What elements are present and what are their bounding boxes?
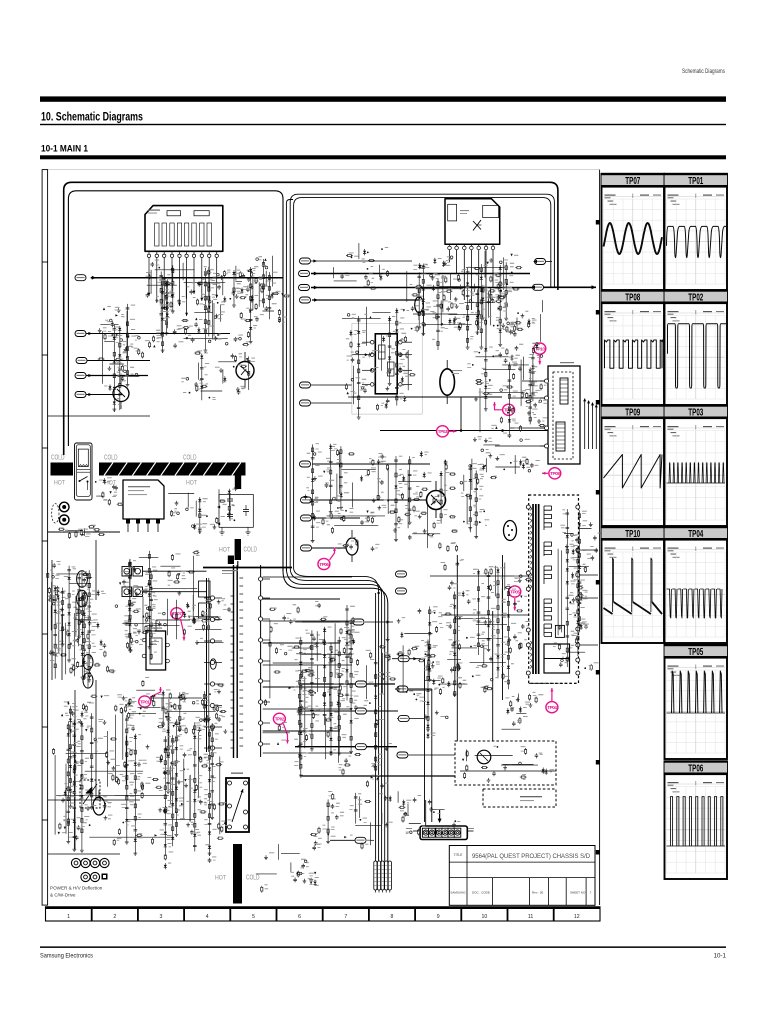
svg-text:COLD: COLD: [183, 455, 197, 462]
svg-text:Rev : 00: Rev : 00: [532, 891, 544, 895]
left connector P102: [75, 331, 86, 337]
svg-text:3: 3: [160, 914, 163, 920]
svg-text:10-1 MAIN 1: 10-1 MAIN 1: [41, 144, 89, 155]
IC U401 pin 2: [456, 244, 458, 246]
IC U301 pin 8: [201, 251, 203, 254]
transistor Q401 (H-out): [427, 491, 446, 510]
wire y464 horizontal: [312, 463, 430, 465]
wire mid 300 heavy: [312, 299, 420, 301]
photo-coupler square A2: [133, 567, 143, 577]
IC IC801S body: [146, 631, 166, 670]
degauss coil dashed ellipse: [52, 504, 59, 523]
scale strip divider: [507, 907, 509, 921]
right margin tick: [596, 490, 600, 495]
scale strip divider: [137, 907, 139, 921]
wire T601 pin1 left: [522, 380, 545, 382]
svg-text:COLD: COLD: [104, 455, 118, 462]
Y-cap arrows: [217, 506, 220, 509]
component cluster: socket area: [403, 798, 456, 836]
degauss connector ring 1: [59, 502, 69, 512]
FBT primary pin 6: [526, 671, 530, 675]
test point TP07 callout: [171, 608, 186, 641]
wire y711 horizontal: [300, 710, 398, 712]
scale strip divider: [414, 907, 416, 921]
relay RL801 body: [75, 443, 93, 500]
svg-text:TITLE: TITLE: [454, 853, 463, 857]
Y-cap bridge network box: [219, 495, 253, 528]
photo-coupler square B2: [133, 587, 143, 597]
CRT socket side lead left: [413, 830, 419, 832]
left connector P103: [76, 358, 87, 364]
wire bottom y854: [48, 853, 120, 855]
wire bus line D: [286, 200, 293, 572]
IC U301 inner label box 2: [194, 211, 209, 216]
right connector J402: [533, 284, 544, 290]
component cluster: top right corner cluster: [507, 300, 543, 354]
wire mid 273.5 heavy: [311, 273, 530, 275]
svg-text:TP10: TP10: [625, 529, 640, 540]
isolation small bar: [235, 539, 241, 560]
line filter LF801 winding 2: [77, 590, 88, 606]
svg-text:HOT: HOT: [215, 875, 226, 882]
chassis pin ring 5: [81, 872, 90, 881]
T801 aux box 2: [199, 603, 211, 618]
svg-text:TP08: TP08: [550, 471, 560, 476]
svg-text:6: 6: [298, 914, 301, 920]
transformer T601 winding 2: [556, 422, 565, 451]
transformer T802 pin: [244, 781, 248, 785]
wire left x96b vertical: [95, 680, 97, 800]
FBT secondary pin 3: [576, 573, 580, 577]
test point TP10 callout: [534, 343, 546, 365]
oscilloscope box TP10: [601, 526, 665, 643]
FBT secondary pin 8: [576, 671, 580, 675]
left connector P101: [75, 275, 86, 281]
isolation bar vertical leg: [235, 476, 241, 490]
scale strip divider: [553, 907, 555, 921]
test point TP05 callout: [509, 586, 521, 611]
component cluster: right mid column: [474, 343, 545, 438]
title block bottom row divider: [529, 878, 531, 906]
wire mid 261: [311, 260, 412, 262]
title cell divider: [466, 846, 468, 906]
FBT winding comb 1: [543, 506, 545, 530]
IC U301 pin 2: [156, 251, 158, 254]
component cluster: under DPS: [122, 680, 227, 732]
FBT secondary pin 1: [576, 505, 580, 509]
transformer T802 pin: [228, 804, 232, 808]
svg-text:TP06: TP06: [319, 562, 329, 567]
transformer T801 primary pin 8: [210, 746, 214, 750]
bridge rectifier D801 dashed box: [80, 780, 100, 808]
IC U401 body (chamfered): [445, 199, 500, 244]
right margin tick: [596, 850, 600, 855]
IC U401 pin 6: [485, 244, 487, 246]
transformer T801 winding ticks left: [231, 595, 235, 597]
scale strip divider: [460, 907, 462, 921]
chassis pin ring 4: [100, 858, 109, 867]
svg-text:9564(PAL QUEST PROJECT) CHASSI: 9564(PAL QUEST PROJECT) CHASSIS S/D: [472, 853, 591, 860]
IC IC601 right pin 2: [399, 353, 403, 357]
degauss connector ring 2: [59, 515, 69, 525]
wire bus B+ left: [91, 277, 283, 279]
wire bundle corner C: [290, 568, 381, 861]
svg-text:2: 2: [113, 914, 116, 920]
Y-cap C802: [229, 510, 231, 515]
wire y746 heavy: [295, 746, 397, 748]
oscilloscope box TP01: [664, 173, 734, 290]
wire left x75 vertical: [74, 690, 76, 850]
transformer T802 arrow: [232, 789, 243, 822]
component cluster: left column low: [48, 574, 89, 681]
IC U301 pin 1: [148, 251, 150, 254]
left margin tick: [42, 819, 48, 821]
Y-cap C803: [245, 505, 247, 510]
wire deflection out 4: [595, 406, 597, 449]
svg-text:COLD: COLD: [246, 875, 260, 882]
svg-text:9: 9: [437, 914, 440, 920]
IC U301 label: [148, 210, 160, 211]
wire bundle extra: [375, 593, 377, 861]
transformer T802 label DRV: [231, 773, 243, 774]
svg-text:TP04: TP04: [688, 529, 703, 540]
left margin tick: [42, 540, 48, 542]
transformer T801 secondary fan wires: [263, 576, 352, 578]
CRT socket pin 5: [448, 828, 455, 837]
Y-cap C801: [229, 495, 231, 500]
IC IC801S right pin: [166, 659, 170, 663]
IC U401 pin 1: [449, 244, 451, 246]
transformer T801 core: [233, 565, 235, 758]
wire left x62 vertical: [61, 615, 63, 680]
loop-edge connector J205: [300, 382, 311, 388]
svg-text:TP08: TP08: [625, 293, 640, 304]
test point TP08 callout: [542, 468, 561, 479]
FBT primary pin 5: [526, 643, 530, 647]
svg-text:HOT: HOT: [54, 479, 65, 486]
IC IC801S left pin: [142, 654, 146, 658]
transformer T801 left rail: [206, 578, 208, 752]
right connector J401: [535, 259, 546, 265]
scale strip divider: [183, 907, 185, 921]
wire IC601 feed: [348, 396, 352, 398]
transformer T601 winding 1: [560, 378, 568, 404]
photo-coupler square B1: [122, 587, 132, 597]
wire mid 287.5 heavy: [311, 287, 543, 289]
mid connector K11: [396, 588, 407, 594]
IC U301 pin 5: [179, 251, 181, 254]
svg-text:TP02: TP02: [275, 717, 285, 722]
left margin tick: [42, 447, 48, 449]
component cluster: under IC U401: [404, 251, 522, 350]
svg-text:TP02: TP02: [688, 293, 703, 304]
wire y838 horizontal: [330, 839, 355, 841]
transformer T801 secondary pin 5: [259, 659, 263, 663]
IC U301 pin 3: [163, 251, 165, 254]
relay RL801 coil squiggle: [79, 465, 88, 467]
CRT socket pin 2: [429, 828, 436, 837]
svg-text:/: /: [590, 891, 591, 895]
CRT socket side lead right: [468, 830, 474, 832]
svg-text:TP01: TP01: [688, 176, 703, 187]
T801 aux box 1: [199, 581, 211, 597]
transformer T801 primary pin 3: [210, 639, 214, 643]
relay RL801 inner outline: [76, 445, 90, 497]
component cluster: H-out area: [398, 459, 486, 552]
left margin tick: [42, 633, 48, 635]
IC IC601 right pin 3: [399, 369, 403, 373]
transistor Q302: [113, 386, 129, 402]
transformer T801 primary pin 7: [210, 725, 214, 729]
IC U301 pin 9: [208, 251, 210, 254]
IC U401 pin 7: [492, 244, 494, 246]
wire heavy bus above T801: [203, 567, 292, 569]
IC U301 inner cell 4: [170, 223, 174, 246]
chassis pin square: [102, 874, 108, 880]
wire bus line C: [294, 198, 551, 568]
wire bus line B: [290, 194, 554, 568]
isolation bar left (COLD/HOT): [51, 463, 74, 476]
right margin tick: [596, 400, 600, 405]
IC IC801S left pin: [142, 638, 146, 642]
transformer T801 core cap: [228, 556, 234, 565]
thin rule under heading: [40, 124, 726, 125]
svg-text:TP03: TP03: [688, 408, 703, 419]
transformer T802 pin: [244, 810, 248, 814]
wire photo-coupler to T801 A: [143, 570, 207, 572]
bottom scale strip frame: [46, 907, 601, 909]
wire bundle corner A: [283, 571, 388, 861]
photo-coupler square A1: [122, 567, 132, 577]
dashed box P E/W label: [483, 789, 556, 807]
sheet right border line: [599, 170, 601, 905]
FBT secondary pin 5: [576, 627, 580, 631]
right margin tick: [596, 670, 600, 675]
component cluster: loop2 bottom mid: [304, 444, 429, 552]
wire y755 horizontal: [408, 754, 455, 756]
mid connector K3: [355, 708, 366, 714]
transformer T601 pin 2: [545, 396, 549, 400]
svg-text:HOT: HOT: [105, 479, 116, 486]
svg-text:HOT: HOT: [186, 479, 197, 486]
IC U301 inner cell 2: [155, 223, 159, 246]
component cluster: IC U301 low tail: [186, 352, 250, 400]
component cluster: left mid strings: [115, 551, 208, 660]
component cluster: under bar B: [168, 486, 237, 534]
svg-text:Samsung Electronics: Samsung Electronics: [40, 953, 93, 960]
title block bottom row divider: [547, 878, 549, 906]
left margin tick: [42, 261, 48, 263]
component cluster: around IC IC601: [342, 307, 416, 420]
loop-edge connector J203: [299, 285, 310, 291]
oscilloscope box TP03: [664, 404, 728, 526]
IC IC601 left pin 4: [370, 383, 374, 387]
wire IC601 pin2 left: [352, 354, 362, 356]
line filter LF802 winding 2: [83, 673, 93, 688]
IC U301 pin 10: [216, 251, 218, 254]
transformer T801 secondary pin 2: [259, 596, 263, 600]
test point TP02 callout: [273, 713, 289, 743]
FBT primary pin 4: [526, 628, 530, 632]
component cluster: above posistor: [436, 283, 505, 335]
svg-text:Schematic Diagrams: Schematic Diagrams: [682, 68, 725, 75]
mid connector K5: [355, 837, 366, 843]
transformer T801 secondary pin 6: [259, 679, 263, 683]
component cluster: right of bundle: [397, 606, 448, 739]
svg-text:TP05: TP05: [688, 647, 703, 658]
oscilloscope box TP04: [664, 526, 728, 643]
isolation bar bottom vertical: [233, 844, 242, 904]
heavy rule under subheading: [40, 155, 726, 159]
loop-edge connector J204: [300, 297, 311, 303]
wire left x52 vertical: [51, 560, 53, 680]
oscilloscope box TP06: [664, 760, 728, 879]
IC IC601 led symbol 2: [388, 362, 395, 376]
IC U301 pin 4: [171, 251, 173, 254]
IC U301 pin 7: [193, 251, 195, 254]
svg-text:10-1: 10-1: [714, 953, 727, 960]
wire bottom y800: [48, 799, 140, 801]
mid connector K9: [397, 752, 408, 758]
FBT left coil bumps: [530, 507, 531, 510]
svg-text:TP05: TP05: [510, 589, 520, 594]
test point TP04 callout: [546, 688, 558, 713]
transformer T601 pin 3: [545, 426, 549, 430]
FBT winding comb 5: [543, 624, 545, 636]
component cluster: mid bottom B: [310, 791, 412, 850]
right margin tick: [596, 310, 600, 315]
transformer T801 secondary pin 8: [259, 721, 263, 725]
IC U301 inner cell 5: [177, 223, 181, 246]
transformer T801 secondary pin 1: [259, 577, 263, 581]
oscilloscope box TP07: [601, 173, 665, 290]
loop-edge connector J202: [299, 271, 310, 277]
svg-text:TP07: TP07: [172, 611, 182, 616]
svg-text:SAMSUNG: SAMSUNG: [450, 891, 466, 895]
IC IC601 left pin 2: [370, 353, 374, 357]
right margin tick: [596, 580, 600, 585]
svg-text:5: 5: [252, 914, 255, 920]
FBT primary pin 1: [526, 505, 530, 509]
IC IC601 led symbol 1: [379, 345, 386, 359]
wire deflection out 3: [592, 404, 594, 449]
dashed box E/W inner circle Q406: [477, 750, 491, 764]
component cluster: DPS area: [122, 604, 186, 632]
wire x502.5 vertical: [502, 555, 504, 700]
wire outer loop top/left/right: [64, 182, 558, 455]
svg-text:TP04: TP04: [547, 705, 557, 710]
svg-text:TP06: TP06: [688, 764, 703, 775]
IC IC801S right pin: [166, 643, 170, 647]
scale strip divider: [322, 907, 324, 921]
FBT secondary pin 4: [576, 596, 580, 600]
CRT socket pin 3: [436, 828, 443, 837]
IC IC801S inner: [150, 638, 162, 664]
transformer T802 pin: [228, 781, 232, 785]
wire left y416 horizontal: [48, 415, 150, 417]
IC IC601 left pin 1: [370, 340, 374, 344]
loop-edge connector J208: [301, 497, 312, 503]
wire y689 horizontal: [395, 688, 432, 690]
CRT socket feed arrow: [439, 810, 441, 820]
title block frame: [449, 846, 595, 906]
wire x461 vertical TP03 area: [460, 397, 462, 431]
svg-text:11: 11: [528, 914, 533, 920]
transformer T801 winding ticks right: [239, 577, 243, 579]
wire deflection out 1: [584, 400, 586, 449]
top heavy rule: [40, 96, 726, 101]
IC U301 inner cell 3: [162, 223, 166, 246]
wire y659 horizontal: [392, 658, 421, 660]
chassis pin ring 3: [90, 858, 99, 867]
svg-text:10. Schematic Diagrams: 10. Schematic Diagrams: [41, 112, 143, 124]
FBT primary pin 2: [526, 571, 530, 575]
transformer T801 primary pin 6: [210, 703, 214, 707]
power block pin 1: [126, 519, 130, 524]
wire y718 horizontal: [397, 718, 424, 720]
CRT socket body: [420, 826, 467, 840]
svg-text:4: 4: [206, 914, 209, 920]
wire deflection out 2: [588, 402, 590, 449]
svg-text:TP07: TP07: [625, 176, 640, 187]
wire y771 horizontal: [460, 770, 556, 772]
mid connector K10: [396, 571, 407, 577]
transformer T601 body: [548, 366, 580, 464]
transformer T801 primary pin 4: [210, 660, 214, 664]
svg-text:HOT: HOT: [219, 547, 230, 554]
IC IC601 left pin 3: [370, 369, 374, 373]
wire left 360: [87, 360, 150, 362]
component cluster: top of page right of IC1: [232, 266, 254, 308]
sheet left margin strip: [42, 170, 48, 906]
title block bottom row divider: [565, 878, 567, 906]
oscilloscope box TP02: [664, 289, 735, 405]
footer rule: [40, 946, 726, 948]
FBT core bars: [532, 504, 534, 674]
component cluster: line filter column: [47, 563, 116, 682]
right margin tick: [596, 220, 600, 225]
transformer T802 pin: [228, 825, 232, 829]
component cluster: mid bottom A: [296, 630, 403, 800]
mid connector K6: [398, 656, 409, 662]
transformer T601 inner dashed: [553, 372, 573, 459]
test point TP06 callout: [318, 548, 336, 570]
scale strip divider: [229, 907, 231, 921]
wire left 394: [86, 394, 122, 396]
wire y430.5 horizontal: [380, 430, 548, 432]
component cluster: relay/power entry lower: [58, 526, 105, 539]
wire y615 horizontal: [441, 614, 528, 616]
left connector P104: [75, 373, 86, 379]
oscilloscope box TP08: [601, 289, 665, 405]
relay RL801 contact: [80, 477, 88, 482]
FBT T444 dashed outline: [529, 495, 579, 683]
transformer T801 primary pin 5: [210, 682, 214, 686]
svg-text:DOC : CODE: DOC : CODE: [472, 891, 490, 895]
svg-text:8: 8: [391, 914, 394, 920]
sheet faint top border: [48, 169, 600, 171]
left margin tick: [42, 354, 48, 356]
wire y622 horizontal: [302, 621, 352, 623]
IC U301 inner label box 1: [167, 211, 181, 216]
test point TP01 callout: [139, 687, 162, 707]
wire bundle corner D: [294, 568, 379, 861]
svg-text:10: 10: [482, 914, 488, 920]
IC U401 pin 5: [478, 244, 480, 246]
oscilloscope box TP09: [601, 404, 665, 526]
transformer T801 right rail: [260, 565, 262, 757]
left margin tick: [42, 726, 48, 728]
